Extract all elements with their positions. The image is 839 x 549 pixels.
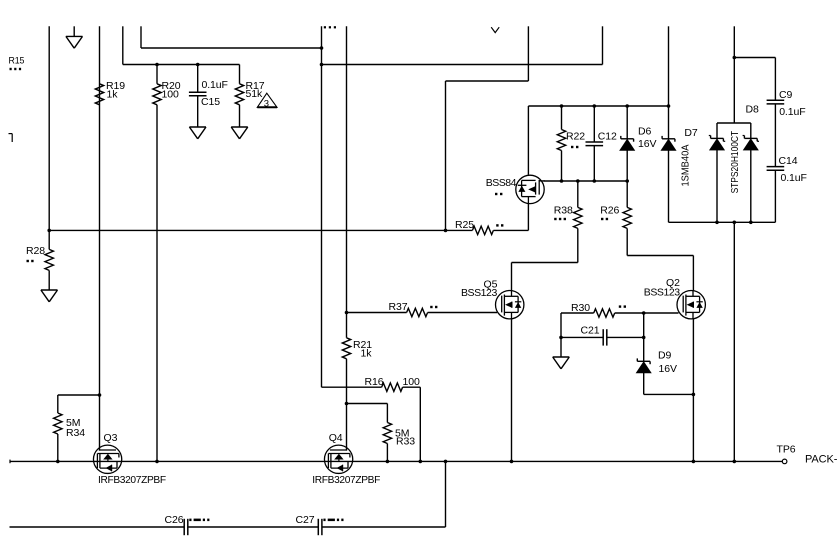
svg-text:C15: C15 — [201, 96, 220, 108]
wire C21 left — [561, 336, 603, 338]
wire cell line right — [322, 526, 446, 528]
dots R26 value — [601, 218, 608, 220]
svg-text:16V: 16V — [638, 138, 656, 150]
wire VG rail corner — [528, 105, 668, 107]
junction — [56, 460, 60, 464]
dots C27 b — [337, 519, 344, 522]
junction — [155, 460, 159, 464]
svg-text:D8: D8 — [746, 104, 759, 116]
diode D6 — [620, 136, 635, 151]
wire Q5 source — [511, 319, 513, 461]
junction — [345, 402, 349, 406]
testpoint TP6 — [782, 459, 787, 464]
svg-text:R15: R15 — [9, 56, 25, 66]
wire D9 bottom — [643, 373, 645, 394]
wire schottky R bottom — [750, 150, 752, 222]
wire schottky R top — [750, 123, 752, 138]
junction — [625, 104, 629, 108]
junction — [560, 104, 564, 108]
wire net y64 rise — [602, 26, 604, 64]
junction — [667, 104, 671, 108]
wire to Q2 gate — [644, 312, 679, 314]
wire cell line left — [10, 526, 185, 528]
wire schottky L bottom — [716, 150, 718, 222]
junction — [593, 104, 597, 108]
dots C27 dash — [328, 519, 335, 522]
resistor R30 — [594, 309, 615, 317]
wire C12 top — [593, 106, 595, 142]
resistor R37 — [407, 308, 428, 316]
svg-text:C27: C27 — [296, 514, 315, 526]
svg-text:0.1uF: 0.1uF — [781, 172, 807, 184]
capacitor C21 — [603, 329, 607, 345]
wire C15 bottom — [197, 96, 199, 127]
junction — [155, 63, 159, 67]
dots R25 value — [496, 224, 503, 226]
resistor R34 — [54, 413, 62, 434]
wire C9-C14 link — [774, 104, 776, 167]
transistor Q5 — [496, 290, 524, 319]
diode D8a — [709, 136, 725, 151]
svg-text:R30: R30 — [571, 302, 590, 314]
wire R20 top — [156, 65, 158, 84]
svg-text:51k: 51k — [246, 88, 263, 100]
wire R16 drop — [419, 387, 421, 461]
wire R25 left — [446, 229, 473, 231]
wire C15 rail drop — [122, 26, 124, 64]
svg-text:STPS20H100CT: STPS20H100CT — [730, 131, 741, 194]
wire Q2 drain drop — [692, 256, 694, 292]
junction — [715, 221, 719, 225]
wire y81 jog — [446, 80, 529, 82]
svg-text:R22: R22 — [566, 131, 585, 143]
wire R37 right to Q5 gate — [428, 312, 497, 314]
wire C12 bottom — [593, 146, 595, 181]
dots net label — [324, 26, 336, 28]
wire C15 top — [197, 65, 199, 93]
svg-text:BSS84: BSS84 — [486, 177, 517, 189]
wire cathode bar — [717, 122, 751, 124]
wire net1 left rail — [48, 26, 50, 230]
svg-text:PACK-: PACK- — [805, 454, 838, 466]
svg-text:D7: D7 — [684, 127, 697, 139]
resistor R20 — [153, 84, 161, 105]
wire schottky L top — [716, 123, 718, 138]
resistor R22 — [557, 130, 565, 151]
dots C26 dash — [194, 519, 201, 522]
svg-text:IRFB3207ZPBF: IRFB3207ZPBF — [98, 475, 166, 486]
junction — [749, 221, 753, 225]
junction — [196, 63, 200, 67]
junction — [419, 460, 423, 464]
svg-text:D6: D6 — [638, 126, 651, 138]
wire R22 bottom — [561, 151, 563, 182]
svg-text:16V: 16V — [659, 363, 677, 375]
capacitor C12 — [586, 142, 604, 146]
ground — [189, 127, 206, 139]
dots R38 value — [554, 218, 566, 220]
resistor R33 — [383, 423, 391, 444]
wire R25 to BSS84 gate — [527, 204, 529, 230]
wire R38 bottom — [577, 228, 579, 262]
wire net y230 — [49, 229, 445, 231]
capacitor C15 — [189, 92, 207, 96]
svg-text:C26: C26 — [165, 514, 184, 526]
svg-text:Q4: Q4 — [329, 432, 343, 444]
resistor R25 — [472, 226, 493, 234]
svg-text:C9: C9 — [779, 89, 792, 101]
svg-text:R26: R26 — [600, 205, 619, 217]
wire Q5 drain jog — [512, 262, 578, 264]
wire R16 right — [403, 386, 421, 388]
junction — [733, 460, 737, 464]
junction — [593, 179, 597, 183]
dots R28 value — [27, 260, 34, 262]
wire R33 top — [386, 404, 388, 423]
wire R33 jog — [347, 403, 388, 405]
wire R30 right — [615, 312, 644, 314]
wire D9 to Q2 source — [644, 393, 694, 395]
svg-text:0.1uF: 0.1uF — [779, 106, 805, 118]
wire ground stem — [73, 26, 75, 36]
wire R34 bottom — [57, 434, 59, 461]
svg-text:R33: R33 — [396, 436, 415, 448]
wire mid rail x346 — [346, 26, 348, 338]
junction — [345, 311, 349, 315]
svg-text:100: 100 — [162, 89, 179, 101]
resistor R19 — [95, 84, 103, 105]
wire gnd stem C21 — [560, 337, 562, 357]
svg-text:R28: R28 — [26, 245, 45, 257]
svg-text:BSS123: BSS123 — [461, 287, 497, 299]
wire R17 bottom — [239, 105, 241, 127]
wire mid rail x321 — [321, 26, 323, 387]
wire R37 left — [347, 312, 407, 314]
junction — [444, 460, 448, 464]
junction — [642, 311, 646, 315]
junction — [733, 56, 737, 60]
wire Q2 drain jog — [627, 255, 693, 257]
resistor R21 — [342, 338, 350, 359]
svg-text:C14: C14 — [779, 155, 798, 167]
wire net y48 drop — [140, 26, 142, 48]
svg-text:D9: D9 — [658, 350, 671, 362]
wire R26 bottom — [626, 228, 628, 255]
wire net y48 — [141, 47, 322, 49]
wire x528 top drop — [527, 26, 529, 81]
wire R34 jog — [58, 394, 100, 396]
dots C27 a — [323, 519, 325, 522]
svg-text:C12: C12 — [598, 131, 617, 143]
wire R28 bottom — [48, 270, 50, 290]
wire net y64 right — [322, 64, 603, 66]
dots R37 value — [430, 306, 437, 308]
resistor R17 — [235, 84, 243, 105]
wire Q5 drain drop — [511, 263, 513, 292]
resistor R38 — [574, 207, 582, 228]
dots R22 value — [571, 146, 578, 148]
wire cell line mid — [188, 526, 318, 528]
wire D8 to C9 — [734, 57, 775, 59]
svg-text:1k: 1k — [361, 348, 373, 360]
wire anode rail y222 — [669, 221, 776, 223]
diode D9 — [636, 358, 651, 373]
junction — [98, 393, 102, 397]
wire R30 left — [561, 312, 594, 314]
wire R17 top — [239, 65, 241, 84]
wire D7 bottom — [668, 151, 670, 223]
junction — [733, 221, 737, 225]
junction — [692, 393, 696, 397]
wire R19 rail — [99, 26, 101, 450]
resistor R16 — [382, 383, 403, 391]
svg-text:C21: C21 — [581, 325, 600, 337]
svg-text:3: 3 — [264, 99, 269, 110]
wire D6 bottom / R26 top — [626, 151, 628, 208]
wire PACK- tick — [9, 460, 11, 464]
diode D8b — [743, 136, 759, 151]
wire x734 drop to PACK- — [733, 222, 735, 461]
svg-text:1k: 1k — [107, 89, 119, 101]
wire R22 top — [561, 106, 563, 130]
wire BSS84 source lead — [527, 106, 529, 175]
transistor Q2 — [677, 290, 705, 319]
junction — [320, 46, 324, 50]
junction — [320, 63, 324, 67]
wire cell line rise — [445, 461, 447, 527]
dots R15 value — [10, 68, 22, 70]
junction — [560, 179, 564, 183]
partial glyph left edge — [9, 134, 13, 142]
junction — [47, 229, 51, 233]
wire net y64 left — [123, 64, 240, 66]
svg-text:IRFB3207ZPBF: IRFB3207ZPBF — [312, 475, 380, 486]
wire R25 right — [493, 229, 528, 231]
junction — [444, 229, 448, 233]
wire D8 stem top — [733, 26, 735, 123]
ground — [66, 36, 83, 48]
dots R30 value — [619, 305, 626, 307]
svg-text:R37: R37 — [389, 301, 408, 313]
wire R33 bottom — [386, 444, 388, 462]
wire D6 top — [626, 106, 628, 139]
diode D7 — [661, 136, 676, 151]
transistor Q3 — [93, 445, 121, 473]
ground — [231, 127, 248, 139]
junction — [642, 336, 646, 340]
resistor R26 — [623, 207, 631, 228]
resistor R28 — [45, 249, 53, 270]
wire R20 bottom to PACK- — [156, 105, 158, 462]
capacitor C27 — [318, 519, 322, 535]
wire R38 top — [577, 181, 579, 207]
wire x445 drop — [445, 81, 447, 230]
junction — [692, 460, 696, 464]
svg-text:BSS123: BSS123 — [644, 286, 680, 298]
wire D7 rail — [668, 26, 670, 139]
wire R34 top — [57, 395, 59, 413]
capacitor C26 — [184, 519, 188, 535]
wire drive rail y181 — [544, 180, 628, 182]
capacitor C9 — [767, 100, 785, 104]
ground — [41, 290, 58, 302]
junction — [576, 179, 580, 183]
wire D9 top — [643, 313, 645, 361]
svg-text:0.1uF: 0.1uF — [202, 79, 228, 91]
wire Q2 source — [692, 319, 694, 461]
dots C26 a — [189, 519, 191, 522]
wire C14 bottom — [774, 170, 776, 222]
svg-text:1SMB40A: 1SMB40A — [680, 144, 691, 186]
off-page chevron — [491, 27, 499, 32]
dots C26 b — [203, 519, 210, 522]
svg-text:R16: R16 — [365, 376, 384, 388]
capacitor C14 — [767, 167, 785, 171]
marker triangle 3 — [257, 93, 277, 107]
wire R28 top — [48, 230, 50, 249]
wire R30 left drop — [560, 313, 562, 337]
junction — [510, 460, 514, 464]
transistor Q4 — [324, 445, 352, 473]
svg-text:TP6: TP6 — [777, 444, 796, 456]
wire R21 bottom — [346, 359, 348, 451]
wire C9 drop — [774, 58, 776, 101]
svg-text:100: 100 — [403, 376, 420, 388]
svg-text:R34: R34 — [66, 427, 85, 439]
junction — [559, 336, 563, 340]
svg-text:R25: R25 — [455, 219, 474, 231]
wire C21 right — [607, 336, 644, 338]
svg-text:R38: R38 — [554, 205, 573, 217]
svg-text:Q3: Q3 — [104, 432, 118, 444]
wire PACK- rail — [10, 460, 782, 462]
wire R16 left — [322, 386, 382, 388]
junction — [625, 179, 629, 183]
junction — [386, 460, 390, 464]
dots BSS84 value — [495, 193, 502, 195]
ground — [553, 357, 570, 369]
